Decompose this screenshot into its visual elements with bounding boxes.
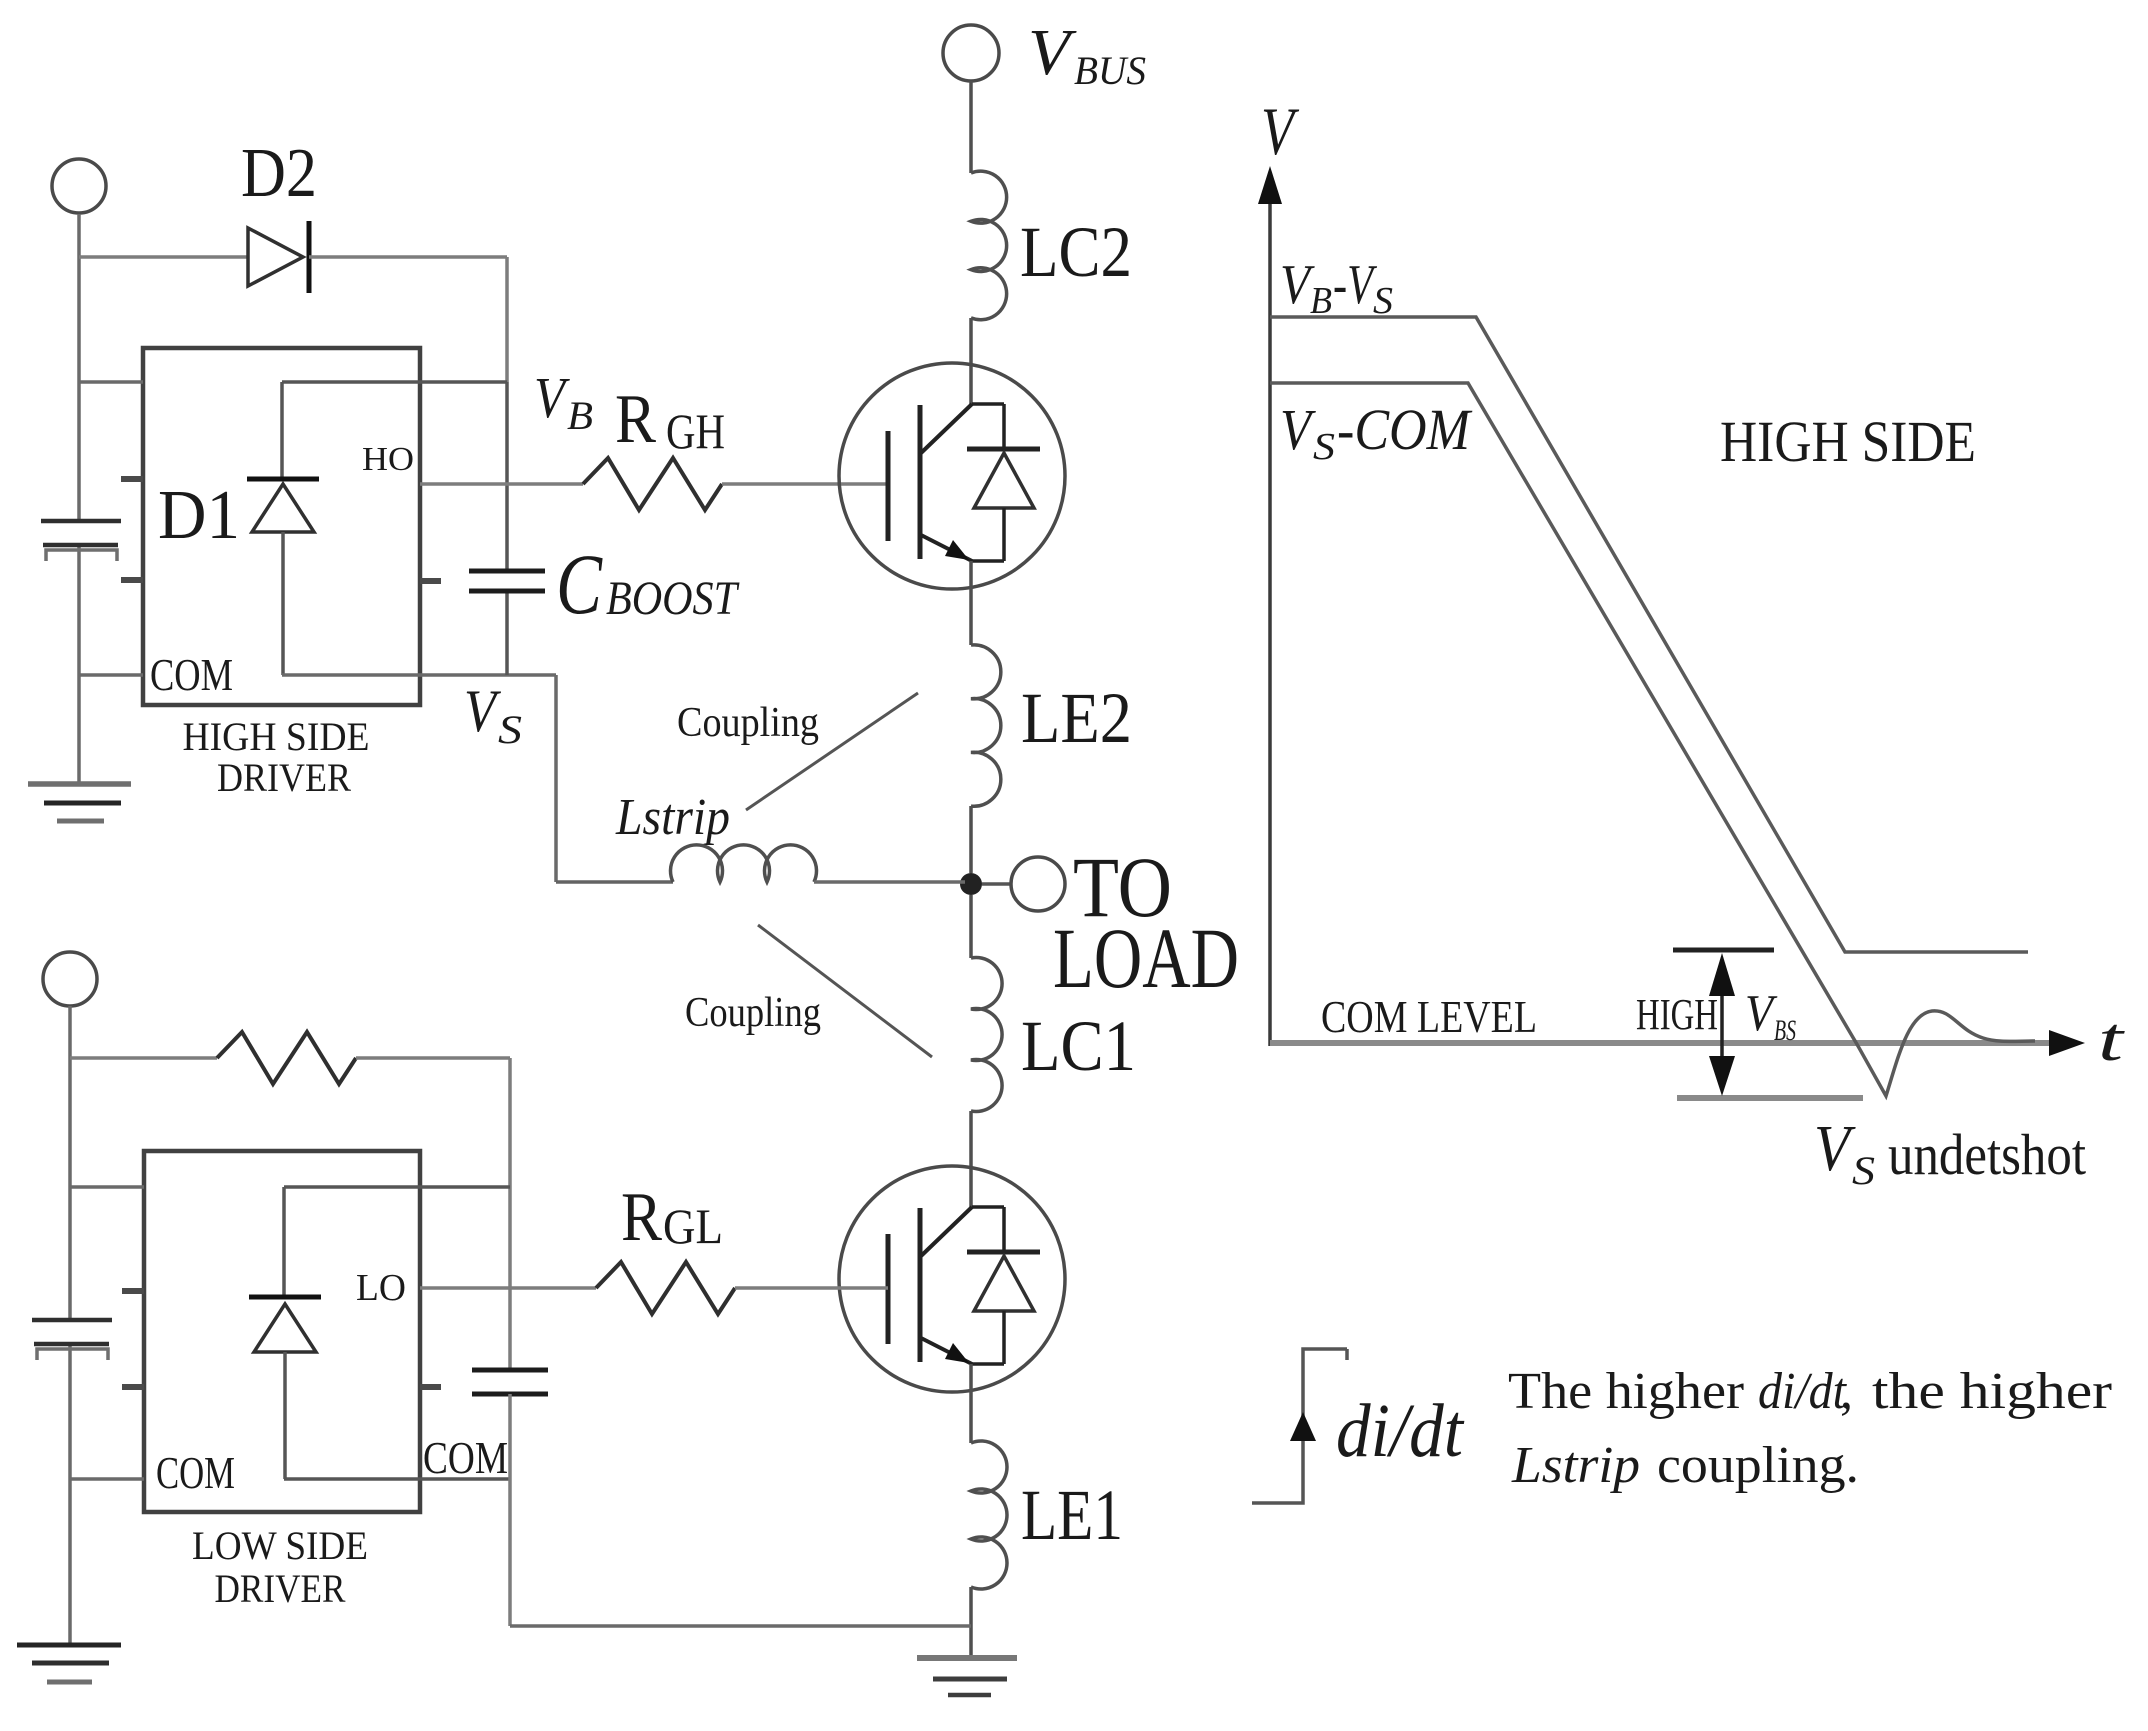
Q2 emitter diagonal with arrow	[921, 1338, 972, 1364]
svg-text:the higher: the higher	[1872, 1363, 2112, 1420]
wire RGH to Q1 gate	[722, 482, 888, 486]
high side driver box U1	[143, 348, 420, 705]
inductor LE2	[971, 645, 1001, 806]
pin stub U2 left lower	[122, 1384, 144, 1390]
diode D1 (internal bootstrap diode)	[280, 382, 284, 477]
svg-text:coupling.: coupling.	[1657, 1437, 1859, 1494]
t axis	[1270, 1040, 2052, 1046]
svg-text:V: V	[1814, 1112, 1856, 1185]
svg-text:V: V	[1028, 16, 1077, 89]
wire LO to RGL	[420, 1286, 596, 1290]
transistor Q2 body circle	[839, 1166, 1065, 1392]
inductor Lstrip	[671, 845, 817, 882]
svg-text:COM: COM	[156, 1447, 235, 1498]
svg-text:C: C	[556, 536, 603, 632]
inductor LC2	[971, 171, 1007, 320]
svg-text:HIGH SIDE: HIGH SIDE	[1720, 409, 1976, 474]
Q2 emitter wire	[969, 1364, 973, 1443]
transistor Q1 body circle	[839, 363, 1065, 589]
svg-text:V: V	[1745, 985, 1778, 1042]
ground (low-side supply)	[17, 1645, 121, 1682]
terminal T2 (low-side supply input)	[43, 952, 97, 1006]
svg-text:HO: HO	[362, 441, 414, 478]
low side driver box U2	[144, 1151, 420, 1512]
di/dt step symbol	[1252, 1349, 1347, 1503]
pin stub U1 left upper	[121, 476, 143, 482]
svg-text:BS: BS	[1774, 1014, 1796, 1047]
svg-text:R: R	[621, 1179, 662, 1256]
capacitor CBOOST	[505, 382, 509, 675]
diode D3 (internal, low side driver)	[282, 1187, 286, 1295]
Q2 channel bar	[918, 1208, 923, 1362]
inductor LC1	[971, 958, 1002, 1112]
svg-text:LOAD: LOAD	[1053, 910, 1239, 1006]
svg-text:undetshot: undetshot	[1888, 1122, 2086, 1187]
wire node to TO LOAD terminal	[982, 882, 1011, 886]
svg-text:BOOST: BOOST	[606, 572, 740, 625]
ground (high-side supply)	[28, 784, 131, 821]
svg-text:COM: COM	[423, 1432, 508, 1483]
wire rail to bootstrap resistor R3	[70, 1056, 217, 1060]
wire Lstrip to load node	[814, 880, 965, 884]
Q1 collector diagonal	[921, 404, 972, 453]
inductor LE1	[971, 1441, 1007, 1589]
svg-text:LO: LO	[356, 1267, 406, 1309]
wire left rail (T1 down to ground)	[77, 214, 81, 784]
svg-text:COM LEVEL: COM LEVEL	[1321, 991, 1537, 1042]
svg-text:S: S	[1373, 280, 1393, 322]
Q1 emitter wire	[969, 561, 973, 645]
capacitor C4 (low side boost cap)	[472, 1370, 548, 1394]
wire COM pin stub (rail to U1)	[79, 673, 143, 677]
svg-text:DRIVER: DRIVER	[215, 1566, 346, 1611]
wire HO to RGH	[420, 482, 583, 486]
svg-text:R: R	[615, 381, 656, 458]
svg-text:D2: D2	[241, 135, 317, 212]
V axis	[1268, 190, 1272, 1046]
terminal TO LOAD	[1011, 857, 1065, 911]
junction load node	[960, 873, 982, 895]
wire left rail low (T2 down to ground)	[68, 1006, 72, 1645]
svg-text:-COM: -COM	[1337, 397, 1472, 462]
Q1 gate bar	[886, 431, 891, 541]
wire node to LC1	[969, 895, 973, 958]
Q2 collector diagonal	[921, 1207, 972, 1256]
curve VS-COM with undershoot	[1270, 383, 2035, 1096]
svg-text:,: ,	[1840, 1363, 1853, 1420]
wire LE1 to ground	[969, 1587, 973, 1657]
wire R3 to right branch corner	[356, 1058, 510, 1370]
svg-text:Coupling: Coupling	[677, 700, 819, 746]
ground (main power)	[917, 1658, 1017, 1695]
wire LE2 to load node	[969, 806, 973, 873]
svg-text:D1: D1	[158, 477, 240, 554]
wire VS net (inside U1 to corner, down to Lstrip)	[282, 675, 556, 882]
svg-text:LC1: LC1	[1021, 1006, 1136, 1086]
wire VCC pin stub low (rail to U2)	[70, 1185, 144, 1189]
pin stub U1 left lower	[121, 577, 143, 583]
wire LC2 to Q1 collector	[969, 318, 973, 404]
resistor RGH	[583, 458, 722, 510]
svg-text:Lstrip: Lstrip	[615, 789, 730, 846]
pin stub U2 right	[420, 1384, 441, 1390]
svg-text:BUS: BUS	[1074, 48, 1146, 93]
wire VB pin stub (rail to U1)	[79, 380, 143, 384]
pin stub U2 left upper	[122, 1288, 144, 1294]
svg-text:t: t	[2098, 1006, 2126, 1074]
capacitor C1 (high-side supply decoupling)	[41, 521, 121, 561]
svg-text:HIGH: HIGH	[1636, 990, 1718, 1039]
resistor R3 (low-side top resistor)	[217, 1032, 356, 1084]
curve VB-VS	[1270, 317, 2028, 952]
wire COM return to main ground trunk	[510, 1624, 971, 1628]
Q1 emitter diagonal with arrow	[921, 535, 972, 561]
svg-text:GH: GH	[666, 403, 725, 459]
svg-text:di/dt: di/dt	[1336, 1389, 1465, 1473]
svg-text:DRIVER: DRIVER	[217, 755, 351, 800]
wire VB net (inside U1 to CBOOST top)	[282, 380, 507, 384]
svg-text:S: S	[1852, 1148, 1875, 1193]
diode D2 (bootstrap diode)	[248, 228, 303, 286]
wire LC1 to Q2 collector	[969, 1111, 973, 1207]
svg-text:HIGH SIDE: HIGH SIDE	[183, 714, 370, 759]
capacitor C2 (low-side supply decoupling)	[32, 1320, 112, 1360]
svg-text:LOW SIDE: LOW SIDE	[192, 1523, 368, 1568]
Q1 channel bar	[918, 405, 923, 559]
wire COM net (inside U2 to right branch)	[284, 1477, 510, 1481]
svg-text:COM: COM	[150, 649, 233, 700]
Q2 gate bar	[886, 1234, 891, 1344]
wire COM pin stub low (rail to U2)	[70, 1477, 144, 1481]
wire C4 bottom to COM return	[508, 1394, 512, 1626]
wire RGL to Q2 gate	[735, 1286, 888, 1290]
svg-text:LE1: LE1	[1021, 1475, 1123, 1555]
svg-text:S: S	[1313, 426, 1335, 468]
annotation HIGH VBS double arrow	[1720, 960, 1724, 1090]
wire D2 anode (rail to D2)	[79, 255, 248, 259]
svg-text:GL: GL	[663, 1198, 723, 1254]
Q1 freewheeling diode branch	[972, 404, 1004, 449]
svg-text:di/dt: di/dt	[1758, 1363, 1847, 1420]
wire top net inside U2	[284, 1185, 510, 1189]
terminal T1 (high-side supply input)	[52, 159, 106, 213]
svg-text:Lstrip: Lstrip	[1511, 1437, 1640, 1494]
annotation HIGH VBS bars	[1673, 948, 1774, 953]
svg-text:S: S	[498, 707, 522, 752]
svg-text:LE2: LE2	[1021, 678, 1132, 758]
svg-text:LC2: LC2	[1020, 212, 1132, 292]
Q2 freewheeling diode branch	[972, 1207, 1004, 1252]
resistor RGL	[596, 1262, 735, 1314]
svg-text:-V: -V	[1333, 254, 1377, 316]
wire VS corner to Lstrip	[556, 880, 673, 884]
svg-text:B: B	[567, 393, 593, 438]
svg-text:The higher: The higher	[1508, 1363, 1744, 1420]
svg-text:Coupling: Coupling	[685, 990, 821, 1036]
wire D2 cathode to VB node	[309, 257, 507, 382]
wire VBUS to LC2	[969, 81, 973, 173]
terminal VBUS	[943, 25, 999, 81]
svg-text:B: B	[1310, 280, 1332, 322]
svg-text:V: V	[464, 678, 502, 744]
pin stub U1 right	[420, 578, 441, 584]
